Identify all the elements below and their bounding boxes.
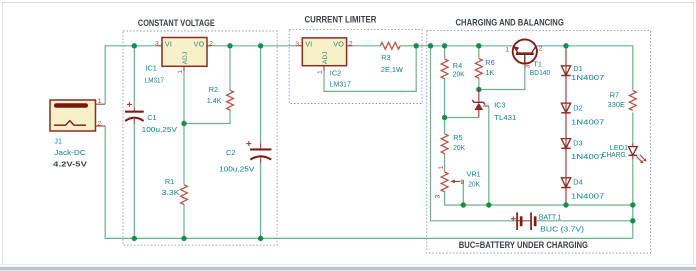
junction dot T1 base node <box>476 87 481 92</box>
battery BATT.1 <box>511 212 537 230</box>
diode D3 <box>561 139 570 149</box>
page rule faint <box>0 264 696 265</box>
svg-text:R5: R5 <box>453 133 462 142</box>
page bottom bar <box>0 267 696 271</box>
svg-text:BD140: BD140 <box>530 68 550 77</box>
wire R7 to LED1 <box>632 113 634 144</box>
svg-text:1: 1 <box>317 70 324 74</box>
wire IC3 ref down <box>488 106 490 205</box>
diode D4 <box>561 178 570 188</box>
wire battery right to junction column <box>537 220 633 222</box>
svg-text:3: 3 <box>155 41 159 48</box>
svg-text:R4: R4 <box>453 61 462 70</box>
svg-text:VI: VI <box>305 40 312 49</box>
svg-text:ADJ: ADJ <box>322 51 329 64</box>
svg-text:1: 1 <box>438 166 445 170</box>
dashed box CURRENT LIMITER <box>289 30 422 104</box>
svg-text:R7: R7 <box>610 90 619 99</box>
page border left <box>2 2 3 264</box>
svg-text:VI: VI <box>165 40 172 49</box>
wire R3 to transistor <box>400 45 513 47</box>
svg-text:100u,25V: 100u,25V <box>142 125 178 134</box>
svg-text:1.4K: 1.4K <box>207 96 222 105</box>
junction dot divider node <box>442 115 447 120</box>
diode D1 <box>561 48 570 203</box>
svg-text:CURRENT LIMITER: CURRENT LIMITER <box>305 15 377 25</box>
svg-text:2: 2 <box>461 179 465 186</box>
wire battery positive column <box>431 46 517 221</box>
wire VO of IC2 to R3 <box>352 45 381 47</box>
page border right <box>693 2 694 264</box>
svg-text:C2: C2 <box>226 148 235 157</box>
op-amp regulator IC1 LM317 <box>158 38 212 71</box>
wire C1 column <box>133 46 135 108</box>
wire T1 base to R6 node <box>479 60 525 90</box>
LED1 <box>628 144 646 164</box>
svg-text:LM317: LM317 <box>330 80 351 89</box>
wire IC2 ADJ feedback loop <box>324 46 416 92</box>
svg-text:2: 2 <box>349 40 353 47</box>
svg-text:IC3: IC3 <box>494 101 505 110</box>
svg-text:BUC=BATTERY UNDER CHARGING: BUC=BATTERY UNDER CHARGING <box>459 240 588 250</box>
svg-text:20K: 20K <box>453 143 465 152</box>
shunt reference IC3 TL431 <box>472 90 489 118</box>
svg-text:BUC (3.7V): BUC (3.7V) <box>540 224 584 233</box>
svg-text:ADJ: ADJ <box>182 52 189 65</box>
svg-text:3: 3 <box>295 41 299 48</box>
svg-text:VO: VO <box>333 40 344 49</box>
svg-text:2: 2 <box>539 46 543 53</box>
svg-text:1K: 1K <box>485 68 494 77</box>
svg-text:BATT.1: BATT.1 <box>539 212 562 221</box>
junction dots bottom rail <box>132 236 137 241</box>
svg-text:3: 3 <box>435 195 442 199</box>
junction dot ADJ node <box>181 121 186 126</box>
svg-text:R3: R3 <box>381 53 390 62</box>
resistor R7 <box>629 91 636 111</box>
wire R6 column <box>478 46 480 58</box>
svg-text:1: 1 <box>177 70 184 74</box>
dashed box CHARGING AND BALANCING <box>427 30 651 253</box>
svg-text:LM317: LM317 <box>145 75 164 84</box>
svg-text:1N4007: 1N4007 <box>571 118 604 127</box>
svg-text:VR1: VR1 <box>467 170 481 179</box>
resistor R1 <box>181 185 188 205</box>
svg-text:1N4007: 1N4007 <box>571 152 604 161</box>
svg-text:330E: 330E <box>608 100 625 109</box>
svg-text:R6: R6 <box>485 58 494 67</box>
capacitor C2 <box>246 141 271 162</box>
svg-text:1: 1 <box>505 46 509 53</box>
svg-text:2: 2 <box>209 40 213 47</box>
svg-text:TL431: TL431 <box>494 113 516 122</box>
potentiometer VR1 <box>441 172 460 192</box>
svg-text:1N4007: 1N4007 <box>571 73 604 82</box>
wire VR1 wiper <box>460 181 463 205</box>
wire VO of IC1 to IC2 <box>212 45 298 47</box>
svg-text:D2: D2 <box>573 104 582 113</box>
wire transistor to D1 column and R7 corner <box>537 46 633 91</box>
svg-text:2: 2 <box>98 120 102 127</box>
svg-text:CONSTANT VOLTAGE: CONSTANT VOLTAGE <box>138 18 215 28</box>
op-amp regulator IC2 LM317 <box>298 38 352 71</box>
capacitor C1 <box>125 102 144 124</box>
svg-text:R2: R2 <box>209 85 218 94</box>
svg-text:IC1: IC1 <box>146 64 157 73</box>
wire C2 column <box>260 46 262 146</box>
wire LED1 to rails <box>632 159 634 239</box>
junction dot battery negative <box>630 218 635 223</box>
svg-text:C1: C1 <box>147 113 156 122</box>
svg-text:1N4007: 1N4007 <box>571 191 604 200</box>
svg-text:1: 1 <box>98 98 102 105</box>
diode D2 <box>561 103 570 113</box>
junction dots balance rail <box>461 202 466 207</box>
resistor R2 <box>227 90 234 110</box>
svg-text:IC2: IC2 <box>330 68 341 77</box>
svg-text:20K: 20K <box>468 180 480 189</box>
connector J1 <box>50 100 105 131</box>
wire R4 R5 VR1 column <box>444 46 446 59</box>
resistor R6 <box>475 58 482 78</box>
svg-text:VO: VO <box>194 40 205 49</box>
svg-text:D4: D4 <box>573 178 582 187</box>
dashed box CONSTANT VOLTAGE <box>123 31 277 245</box>
svg-text:100u,25V: 100u,25V <box>219 165 255 174</box>
svg-text:R1: R1 <box>165 177 174 186</box>
transistor T1 BD140 <box>513 39 537 63</box>
svg-text:J1: J1 <box>54 136 62 145</box>
wire ADJ IC1 / R1 column <box>183 71 185 185</box>
svg-text:4.2V-5V: 4.2V-5V <box>53 159 87 168</box>
resistor R3 <box>380 42 400 49</box>
wire jack pin2 down and bottom rail <box>105 126 633 238</box>
svg-text:20K: 20K <box>453 70 465 79</box>
resistor R4 <box>441 59 448 79</box>
svg-text:D3: D3 <box>573 138 582 147</box>
svg-text:D1: D1 <box>573 64 582 73</box>
svg-text:CHARGING AND BALANCING: CHARGING AND BALANCING <box>456 18 564 28</box>
resistor R5 <box>441 134 448 154</box>
junction dots top rail <box>132 43 636 241</box>
wire R2 branch <box>229 46 231 90</box>
wire main top rail <box>105 46 157 104</box>
page border top <box>2 2 694 3</box>
svg-text:3.3K: 3.3K <box>162 188 180 197</box>
svg-text:CHARG.: CHARG. <box>602 150 628 159</box>
wire IC3 anode to divider node <box>445 117 479 119</box>
svg-text:Jack-DC: Jack-DC <box>54 148 86 157</box>
svg-text:2E,1W: 2E,1W <box>381 65 403 74</box>
wire VR1 bottom to balance rail <box>445 191 633 205</box>
